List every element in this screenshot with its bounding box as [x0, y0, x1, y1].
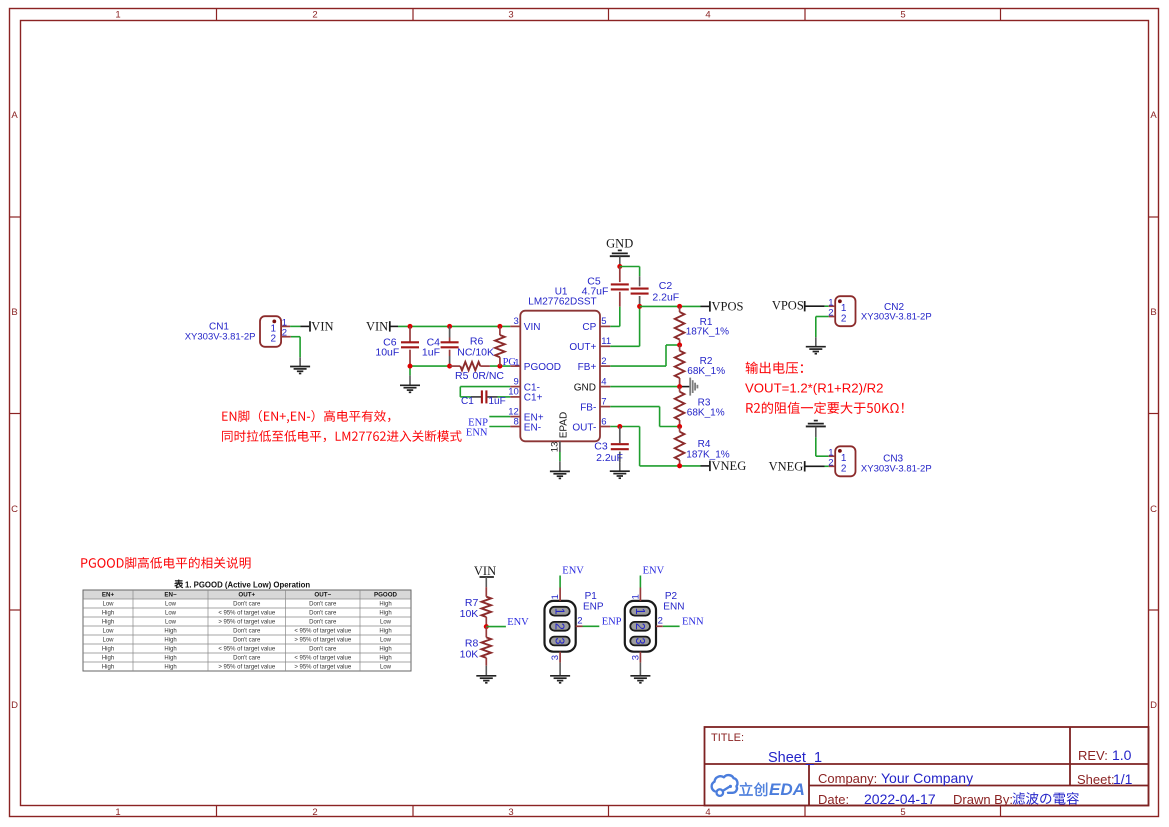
svg-text:4: 4 [601, 376, 606, 387]
LCEDA logo [712, 775, 738, 793]
svg-text:2: 2 [577, 615, 582, 626]
capacitor C6 10uF [409, 326, 411, 342]
svg-text:2.2uF: 2.2uF [652, 291, 679, 303]
svg-text:B: B [1150, 307, 1156, 318]
svg-text:ENP: ENP [583, 602, 604, 613]
svg-text:XY303V-3.81-2P: XY303V-3.81-2P [861, 311, 932, 322]
wire PGOOD rail [410, 365, 450, 367]
svg-text:187K_1%: 187K_1% [686, 327, 729, 338]
svg-text:High: High [102, 647, 114, 653]
svg-text:VPOS: VPOS [772, 299, 804, 313]
svg-text:VNEG: VNEG [769, 459, 804, 473]
svg-text:C1: C1 [461, 396, 474, 407]
svg-text:PGOOD: PGOOD [524, 362, 561, 373]
svg-text:10K: 10K [460, 608, 479, 620]
svg-text:Low: Low [102, 629, 114, 635]
svg-text:2: 2 [282, 328, 287, 339]
junction PGOOD-C6 [408, 364, 413, 369]
pin header P2 ENN [625, 601, 656, 652]
svg-text:1/1: 1/1 [1113, 771, 1133, 787]
svg-text:1: 1 [115, 10, 120, 21]
resistor R2 68K_1% [679, 345, 681, 351]
wire VPOS to CN2 [805, 305, 825, 307]
ground flag CN3 (up) [814, 420, 818, 422]
svg-text:2: 2 [828, 308, 833, 319]
svg-text:4: 4 [705, 10, 710, 21]
svg-text:1. PGOOD (Active Low) Operatio: 1. PGOOD (Active Low) Operation [185, 581, 310, 590]
wire ENV stub [486, 626, 506, 628]
svg-text:< 95% of target value: < 95% of target value [294, 656, 352, 662]
junction OUT--C3 [617, 424, 622, 429]
wire C1- loop [460, 386, 510, 388]
svg-text:VIN: VIN [311, 320, 333, 334]
svg-text:> 95% of target value: > 95% of target value [218, 620, 276, 626]
svg-text:C2: C2 [659, 280, 673, 292]
svg-text:1: 1 [633, 608, 647, 615]
junction VIN-C4 [447, 324, 452, 329]
svg-text:High: High [379, 656, 391, 662]
wire VIN rail [390, 325, 398, 327]
svg-text:1: 1 [553, 608, 567, 615]
connector CN1 XY303V-3.81-2P [260, 316, 281, 347]
svg-text:B: B [11, 307, 17, 318]
pin header P1 ENP [545, 601, 576, 652]
svg-text:VIN: VIN [524, 322, 541, 333]
junction PGOOD-C4 [447, 364, 452, 369]
wire VNEG to CN3 [805, 465, 825, 467]
port VIN (CN1) [309, 321, 311, 331]
svg-text:5: 5 [601, 316, 606, 327]
wire FB+ to divider [610, 365, 666, 367]
wire FB- to divider [610, 406, 659, 408]
svg-text:8: 8 [514, 416, 519, 427]
svg-text:EDA: EDA [769, 780, 805, 799]
svg-text:FB-: FB- [580, 402, 596, 413]
svg-text:ENN: ENN [682, 616, 704, 627]
svg-text:High: High [379, 629, 391, 635]
svg-text:Sheet:: Sheet: [1077, 772, 1115, 787]
svg-text:C1+: C1+ [524, 393, 543, 404]
svg-text:7: 7 [601, 396, 606, 407]
svg-text:1uF: 1uF [489, 396, 506, 407]
svg-text:OUT+: OUT+ [238, 592, 255, 599]
svg-text:High: High [102, 611, 114, 617]
svg-text:3: 3 [550, 655, 561, 660]
ground R8 [476, 675, 496, 677]
svg-text:High: High [164, 656, 176, 662]
svg-text:GND: GND [574, 382, 596, 393]
svg-text:High: High [379, 602, 391, 608]
svg-text:A: A [1150, 110, 1157, 121]
svg-text:Low: Low [165, 602, 177, 608]
svg-text:2: 2 [270, 334, 276, 345]
svg-text:2: 2 [312, 807, 317, 818]
svg-text:< 95% of target value: < 95% of target value [218, 647, 276, 653]
svg-text:Low: Low [165, 620, 177, 626]
svg-text:PGOOD: PGOOD [374, 592, 398, 599]
svg-text:Don't care: Don't care [233, 656, 261, 662]
wire CP to C5 [610, 325, 620, 327]
svg-text:ENP: ENP [602, 616, 622, 627]
svg-text:Date:: Date: [818, 792, 849, 807]
wire GND to C2 [620, 266, 640, 268]
svg-text:D: D [1150, 700, 1157, 711]
svg-text:Your Company: Your Company [881, 770, 973, 786]
svg-text:4: 4 [705, 807, 710, 818]
svg-text:0R/NC: 0R/NC [473, 370, 505, 382]
svg-text:3: 3 [508, 10, 513, 21]
svg-text:R4: R4 [698, 439, 711, 450]
op-amp U1 LM27762DSST body [520, 311, 600, 442]
svg-text:VIN: VIN [366, 320, 388, 334]
svg-text:2: 2 [658, 615, 663, 626]
svg-text:2: 2 [312, 10, 317, 21]
svg-text:> 95% of target value: > 95% of target value [218, 665, 276, 671]
wire OUT+ to VPOS node [610, 345, 639, 347]
wire VIN to R7 [485, 577, 487, 587]
svg-text:4.7uF: 4.7uF [582, 286, 609, 298]
svg-text:3: 3 [553, 638, 567, 645]
svg-text:Don't care: Don't care [309, 611, 337, 617]
svg-text:Low: Low [102, 602, 114, 608]
svg-text:1.0: 1.0 [1112, 747, 1132, 763]
svg-text:P2: P2 [665, 591, 678, 602]
resistor R6 NC/10K [499, 326, 501, 335]
table title [174, 580, 183, 589]
svg-text:High: High [164, 647, 176, 653]
svg-text:R5: R5 [455, 370, 469, 382]
svg-text:Sheet_1: Sheet_1 [768, 750, 822, 766]
svg-text:Don't care: Don't care [233, 602, 261, 608]
svg-text:ENV: ENV [507, 617, 529, 628]
ground P2 [630, 675, 650, 677]
resistor R7 10K [485, 587, 487, 597]
svg-text:< 95% of target value: < 95% of target value [218, 611, 276, 617]
wire CN1 pin1 to VIN port [290, 325, 300, 327]
wire R8 to ground [485, 666, 487, 676]
resistor R3 68K_1% [679, 387, 681, 392]
junction R3-R4 [677, 424, 682, 429]
svg-text:1: 1 [115, 807, 120, 818]
resistor R1 187K_1% [679, 306, 681, 312]
svg-text:> 95% of target value: > 95% of target value [294, 638, 352, 644]
svg-text:C: C [11, 504, 18, 515]
svg-text:3: 3 [630, 655, 641, 660]
svg-text:EN−: EN− [164, 592, 177, 599]
svg-text:EN+: EN+ [102, 592, 115, 599]
svg-text:Don't care: Don't care [309, 647, 337, 653]
svg-text:< 95% of target value: < 95% of target value [294, 629, 352, 635]
capacitor C4 1uF [449, 326, 451, 337]
junction VNEG-R4 [677, 463, 682, 468]
svg-text:EN-: EN- [524, 422, 541, 433]
svg-text:XY303V-3.81-2P: XY303V-3.81-2P [861, 463, 932, 474]
ground P1 [550, 675, 570, 677]
svg-text:1: 1 [630, 594, 641, 599]
svg-text:Don't care: Don't care [309, 620, 337, 626]
wire EN+ (ENP) [489, 416, 510, 418]
svg-text:VIN: VIN [474, 564, 496, 578]
svg-text:High: High [102, 665, 114, 671]
svg-text:REV:: REV: [1078, 748, 1108, 763]
svg-text:2: 2 [828, 457, 833, 468]
table PGOOD operation [83, 590, 411, 599]
wire C6 to ground [409, 366, 411, 375]
svg-text:Low: Low [380, 620, 392, 626]
svg-text:2022-04-17: 2022-04-17 [864, 791, 936, 807]
svg-text:10K: 10K [460, 649, 479, 661]
ground C6 [400, 384, 420, 386]
svg-text:Low: Low [165, 611, 177, 617]
svg-text:OUT-: OUT- [572, 422, 596, 433]
svg-text:ENN: ENN [466, 428, 488, 439]
ground EPAD [550, 470, 570, 472]
svg-text:XY303V-3.81-2P: XY303V-3.81-2P [185, 331, 256, 342]
ground CN1 [290, 366, 310, 368]
svg-text:VPOS: VPOS [712, 300, 744, 314]
svg-text:13: 13 [550, 442, 561, 453]
connector CN3 XY303V-3.81-2P [835, 446, 855, 476]
ground C3 [610, 470, 630, 472]
svg-text:3: 3 [633, 638, 647, 645]
svg-text:C: C [1150, 504, 1157, 515]
junction R1-R2 [677, 343, 682, 348]
wire OUT- to VNEG [610, 426, 639, 428]
junction GND-C5 [617, 264, 622, 269]
wire C3 to ground [619, 462, 621, 471]
svg-text:Low: Low [102, 638, 114, 644]
svg-text:68K_1%: 68K_1% [687, 366, 725, 377]
svg-text:11: 11 [601, 336, 611, 347]
svg-text:3: 3 [508, 807, 513, 818]
junction VIN-R6 [497, 324, 502, 329]
wire EPAD to ground [559, 452, 561, 461]
red note PGOOD heading [81, 557, 250, 569]
svg-text:Drawn By:: Drawn By: [953, 792, 1013, 807]
junction C2-OUT+ [637, 304, 642, 309]
svg-text:High: High [102, 620, 114, 626]
ground flag GND (up) [618, 249, 622, 251]
svg-text:5: 5 [900, 807, 905, 818]
junction PGOOD-R6 [497, 364, 502, 369]
svg-text:VOUT=1.2*(R1+R2)/R2: VOUT=1.2*(R1+R2)/R2 [745, 380, 884, 395]
junction GND-R2R3 [677, 384, 682, 389]
resistor R5 0R/NC [450, 365, 461, 367]
svg-text:2.2uF: 2.2uF [596, 452, 623, 464]
svg-text:A: A [11, 110, 18, 121]
svg-text:68K_1%: 68K_1% [687, 408, 725, 419]
junction ENV [484, 624, 489, 629]
svg-text:FB+: FB+ [578, 362, 597, 373]
wire GND pin4 [610, 386, 679, 388]
svg-text:High: High [379, 611, 391, 617]
resistor R8 10K [485, 627, 487, 638]
svg-text:High: High [164, 665, 176, 671]
svg-text:2: 2 [841, 463, 847, 474]
wire CN1 pin2 to ground [291, 336, 300, 338]
svg-text:OUT−: OUT− [314, 592, 331, 599]
svg-text:OUT+: OUT+ [569, 342, 596, 353]
svg-text:Company:: Company: [818, 771, 877, 786]
svg-text:Low: Low [380, 665, 392, 671]
svg-text:2: 2 [601, 356, 606, 367]
svg-text:ENV: ENV [562, 565, 584, 576]
svg-text:EPAD: EPAD [559, 412, 570, 439]
svg-text:6: 6 [601, 416, 606, 427]
svg-text:NC/10K: NC/10K [457, 346, 494, 358]
wire VPOS rail [640, 305, 701, 307]
svg-text:VNEG: VNEG [712, 459, 747, 473]
svg-text:LM27762DSST: LM27762DSST [528, 297, 596, 308]
svg-text:> 95% of target value: > 95% of target value [294, 665, 352, 671]
svg-text:Don't care: Don't care [309, 602, 337, 608]
svg-text:ENV: ENV [643, 565, 665, 576]
svg-text:Don't care: Don't care [233, 638, 261, 644]
connector CN2 XY303V-3.81-2P [835, 296, 855, 326]
svg-text:2: 2 [553, 623, 567, 630]
svg-text:TITLE:: TITLE: [711, 732, 744, 744]
svg-text:2: 2 [841, 313, 847, 324]
port VNEG (rail) [709, 461, 711, 471]
svg-text:2: 2 [633, 623, 647, 630]
junction VIN-C6 [408, 324, 413, 329]
resistor R4 187K_1% [679, 427, 681, 432]
svg-text:GND: GND [606, 236, 633, 250]
junction VPOS-R1 [677, 304, 682, 309]
svg-text:High: High [164, 629, 176, 635]
svg-text:Don't care: Don't care [233, 629, 261, 635]
red note EN line1 [222, 410, 390, 423]
svg-text:1uF: 1uF [422, 347, 440, 359]
ground flag GND (right) [689, 378, 691, 396]
svg-text:ENN: ENN [663, 602, 684, 613]
svg-text:P1: P1 [585, 591, 598, 602]
svg-text:High: High [102, 656, 114, 662]
port VPOS (rail) [709, 301, 711, 311]
svg-text:C3: C3 [594, 441, 608, 453]
wire C1+ to pin10 [498, 396, 511, 398]
svg-text:Low: Low [380, 638, 392, 644]
svg-text:High: High [164, 638, 176, 644]
svg-text:3: 3 [514, 316, 519, 327]
svg-text:CP: CP [582, 322, 596, 333]
svg-text:10: 10 [508, 387, 519, 398]
wire EN- (ENN) [489, 426, 510, 428]
wire CN2 pin2 to ground [816, 316, 829, 318]
red note VOUT line1 [746, 362, 803, 374]
wire CN3 pin1 to ground [815, 437, 817, 456]
red note VOUT line3 [746, 402, 903, 414]
red note EN line2 [222, 430, 462, 442]
svg-text:10uF: 10uF [375, 347, 399, 359]
svg-text:1: 1 [550, 594, 561, 599]
capacitor C5 4.7uF [619, 267, 621, 283]
ground CN2 [806, 346, 826, 348]
svg-text:High: High [379, 647, 391, 653]
capacitor C3 2.2uF [619, 427, 621, 444]
title block box [705, 727, 1149, 806]
svg-text:5: 5 [900, 10, 905, 21]
capacitor C2 2.2uF [631, 288, 649, 290]
capacitor C1 1uF [471, 396, 481, 398]
svg-text:D: D [11, 700, 18, 711]
